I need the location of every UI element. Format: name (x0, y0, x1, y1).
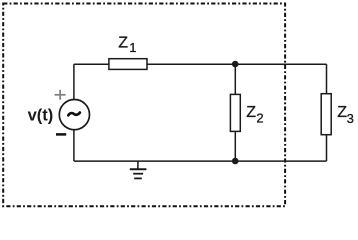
wire: source bottom to bottom wire (73, 130, 75, 162)
resistor Z3 (box) (321, 94, 331, 135)
wire: top horizontal from source to Z3 branch (74, 63, 327, 65)
AC source V1 circle (59, 100, 89, 130)
AC source sine tilde (68, 113, 80, 116)
minus polarity mark (56, 133, 66, 136)
dashed enclosure (network boundary) (3, 4, 285, 207)
plus polarity mark (55, 90, 66, 100)
label Z3 (337, 104, 354, 126)
svg-text:2: 2 (256, 111, 263, 126)
junction node dot (top, Z2/top wire) (232, 61, 239, 68)
svg-text:v(t): v(t) (28, 107, 54, 125)
wire: Z2 vertical branch (234, 64, 236, 161)
ground symbol (130, 161, 147, 178)
label Z1 (118, 35, 136, 55)
svg-text:3: 3 (347, 111, 354, 126)
junction node dot (bottom, Z2/bottom wire) (232, 158, 239, 165)
svg-text:Z: Z (246, 104, 256, 121)
label Z2 (246, 104, 263, 126)
svg-text:1: 1 (129, 40, 136, 55)
wire: left vertical from top wire down to source top (73, 64, 75, 100)
wire: bottom horizontal from source to Z3 branch (74, 160, 327, 162)
wire: Z3 vertical branch (326, 64, 328, 161)
svg-text:Z: Z (118, 35, 128, 52)
resistor Z2 (box) (230, 94, 240, 131)
resistor Z1 (box) (109, 59, 147, 70)
